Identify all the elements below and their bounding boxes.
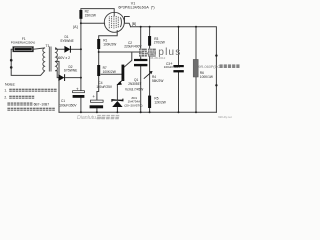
resistor R6 (gray) [193,59,198,77]
wire R6 column [195,27,197,60]
wire grid [81,19,105,23]
svg-text:C1: C1 [61,99,65,103]
svg-text:360V x 2: 360V x 2 [57,56,70,60]
svg-text:100K/2W: 100K/2W [103,43,116,47]
wire C3 bottom [178,72,180,112]
junction ground bus / ZD1 [116,111,118,113]
wire R6 bottom [195,77,197,112]
svg-text:100uF/350V: 100uF/350V [59,103,77,107]
svg-text:620.dly.net: 620.dly.net [218,115,232,119]
junction R1/R7 node [98,51,100,53]
wire Q1 collector up [124,52,132,67]
svg-text:Notes:: Notes: [5,82,15,86]
wire fuse to primary [33,48,44,49]
junction B+ bus / C3 [178,26,180,28]
wire tube bottom to R1 top [99,31,118,39]
wire C1 bottom to ground bus [80,98,82,112]
resistor R2 [79,10,82,19]
svg-text:100K/1W: 100K/1W [200,75,213,79]
svg-text:[A]: [A] [73,25,77,29]
svg-text:100uF/400V: 100uF/400V [164,65,180,69]
AC input terminal dot 2 [10,66,13,69]
junction ground bus / C1 [80,111,82,113]
diode D1 [64,46,70,53]
junction ground bus / C3 [178,111,180,113]
wire C3 column [178,27,180,65]
wire secondary bottom to D2 [56,71,59,78]
junction B+ bus / R3 [149,26,151,28]
junction C2 top / collector wire [140,51,142,53]
wire Q1 emitter down to zener [116,84,118,99]
wire top B+ bus [131,27,217,113]
watermark hanzi 1 [139,49,147,57]
fuse F1 [13,47,34,52]
svg-text:06-28-2012: 06-28-2012 [150,56,166,60]
wire C4 bottom to ground [96,109,98,113]
wire secondary top to D1 [56,48,65,49]
wire rectifier bus [80,23,82,90]
svg-text:220uF/400V: 220uF/400V [124,45,142,49]
resistor R5 [148,96,151,108]
svg-text:Vcm3.7/45W: Vcm3.7/45W [125,88,143,92]
wire C2 bottom to ground [140,66,142,112]
svg-text:1.: 1. [4,89,7,93]
capacitor C4 [90,94,104,109]
wire center tap down [56,61,59,112]
wire D2 cathode to bus [66,77,81,79]
junction ground bus / C4 [96,111,98,113]
resistor R7 [97,65,100,76]
resistor R3 [148,36,151,46]
svg-text:T1: T1 [46,44,50,48]
junction ground bus / C2 [140,111,142,113]
svg-text:56K/2W: 56K/2W [152,79,163,83]
tube heater bracket [125,17,131,27]
wire D1 cathode to bus [71,48,81,50]
svg-text:6P3P/EL34/6L6GA (*): 6P3P/EL34/6L6GA (*) [118,6,154,10]
wire R7 bottom to C4 [97,76,99,100]
junction B+ bus / C2 [140,26,142,28]
zener ZD1 [112,99,123,107]
wire R5 to ground [149,108,151,112]
svg-text:+: + [92,94,95,99]
svg-text:Dianlutu.net: Dianlutu.net [77,115,105,121]
junction ground bus / R5 [149,111,151,113]
potentiometer R4 arrow [144,71,153,79]
output terminal dot upper [215,54,217,56]
capacitor C1 [73,87,85,98]
junction ground bus / R6 [195,111,197,113]
capacitor C3 [170,61,184,73]
wire R3 column [149,27,151,36]
output terminal dot lower [215,84,217,86]
svg-text:100K/2W: 100K/2W [103,70,116,74]
wire R3 to R5 [149,46,151,96]
capacitor C2 [134,51,149,66]
junction node A (R2/grid/rectifier bus) [80,22,82,24]
svg-text:POWER(AC250V): POWER(AC250V) [11,40,36,44]
svg-text:2N3055T: 2N3055T [128,82,141,86]
wire ground bus [59,111,216,113]
watermark hanzi 2 [148,49,156,57]
tube V1 [104,12,124,32]
transformer T1 [43,47,58,72]
svg-text:SY5WNE: SY5WNE [60,39,73,43]
junction B+ bus / R6 [195,26,197,28]
resistor R1 [97,39,100,49]
svg-text:6B7~10B7: 6B7~10B7 [34,102,50,106]
svg-text:[B]: [B] [132,22,136,26]
wire top plate [81,9,114,13]
svg-text:15K/2W: 15K/2W [85,13,96,17]
wire C2 column [140,27,142,59]
svg-text:9R-060P(DC: 9R-060P(DC [198,65,220,69]
transistor Q1 [117,65,125,86]
junction D2 cathode to bus [80,77,82,79]
svg-text:SY5WNE: SY5WNE [64,69,77,73]
wire R1 bottom junction [98,49,100,65]
svg-text:2.: 2. [4,96,7,100]
wire AC left [11,49,44,75]
wire node to C2 top [99,51,141,53]
junction D1 cathode to bus [80,48,82,50]
svg-text:270/2W: 270/2W [154,41,165,45]
diode D2 [58,74,64,81]
svg-text:12K/2W: 12K/2W [154,100,165,104]
wire Q1 base [101,73,122,75]
AC input terminal dot 1 [10,59,13,62]
svg-text:100uF/25V: 100uF/25V [96,85,112,89]
wire zener to ground [116,107,118,112]
svg-text:(20~20V5TC): (20~20V5TC) [124,103,142,107]
